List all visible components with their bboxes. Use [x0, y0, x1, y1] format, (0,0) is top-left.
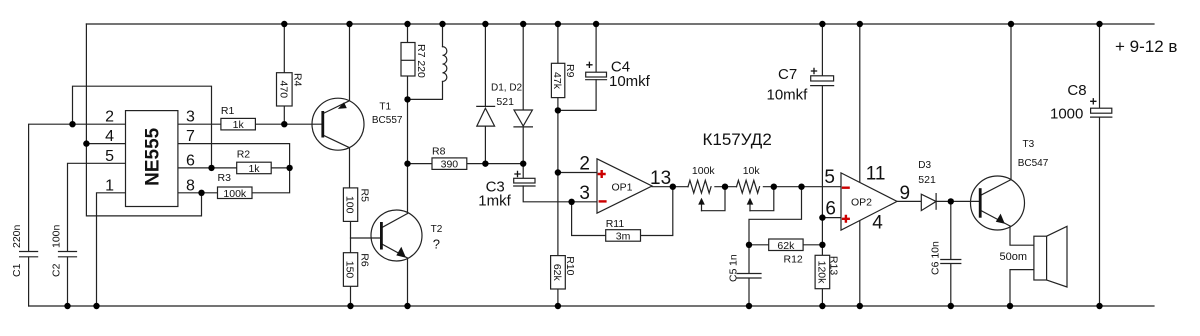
svg-text:6: 6	[825, 199, 836, 220]
svg-text:BC547: BC547	[1018, 158, 1049, 169]
svg-text:4: 4	[105, 128, 114, 145]
svg-text:C6 10n: C6 10n	[930, 241, 942, 275]
svg-text:10mkf: 10mkf	[609, 73, 651, 90]
svg-text:120k: 120k	[815, 261, 827, 285]
svg-text:521: 521	[496, 96, 514, 108]
svg-text:T1: T1	[379, 102, 391, 113]
svg-text:11: 11	[866, 164, 886, 185]
svg-text:5: 5	[105, 148, 114, 165]
svg-text:470: 470	[277, 81, 289, 99]
svg-text:1n: 1n	[728, 254, 740, 266]
svg-text:R9: R9	[564, 64, 576, 78]
svg-text:3: 3	[579, 183, 590, 204]
svg-text:R3: R3	[218, 172, 232, 184]
svg-text:NE555: NE555	[142, 127, 163, 186]
svg-text:R4: R4	[292, 73, 304, 87]
svg-text:T3: T3	[1023, 139, 1035, 150]
svg-text:2: 2	[579, 154, 590, 175]
svg-text:R2: R2	[237, 149, 251, 161]
svg-text:8: 8	[186, 177, 195, 194]
svg-text:К157УД2: К157УД2	[703, 130, 772, 149]
svg-text:62k: 62k	[551, 264, 563, 282]
svg-text:C5: C5	[728, 268, 740, 282]
svg-text:150: 150	[344, 261, 356, 279]
svg-text:BC557: BC557	[372, 115, 403, 126]
svg-text:13: 13	[650, 168, 671, 189]
svg-text:390: 390	[441, 159, 459, 171]
svg-text:R5: R5	[359, 189, 371, 203]
svg-text:C1: C1	[11, 263, 23, 277]
svg-text:100n: 100n	[51, 224, 63, 248]
svg-text:C2: C2	[51, 263, 63, 277]
svg-text:R10: R10	[564, 256, 576, 275]
svg-text:R6: R6	[359, 253, 371, 267]
svg-text:1mkf: 1mkf	[478, 192, 511, 209]
svg-text:100k: 100k	[692, 165, 716, 177]
svg-text:1k: 1k	[248, 163, 260, 175]
svg-text:62k: 62k	[777, 240, 795, 252]
svg-text:+ 9-12 в: + 9-12 в	[1115, 37, 1177, 56]
svg-text:D3: D3	[918, 160, 931, 171]
svg-text:100k: 100k	[223, 188, 247, 200]
svg-text:R8: R8	[432, 146, 446, 158]
svg-text:D1, D2: D1, D2	[491, 83, 523, 94]
svg-text:C8: C8	[1067, 82, 1086, 99]
svg-text:R13: R13	[828, 256, 840, 275]
svg-text:50om: 50om	[1000, 251, 1028, 263]
svg-text:1000: 1000	[1050, 106, 1083, 123]
svg-text:3m: 3m	[616, 231, 631, 243]
svg-text:10k: 10k	[743, 165, 761, 177]
svg-text:OP1: OP1	[612, 182, 633, 194]
svg-text:OP2: OP2	[851, 197, 872, 209]
svg-text:R7 220: R7 220	[415, 44, 427, 78]
svg-text:1k: 1k	[233, 119, 245, 131]
svg-text:10mkf: 10mkf	[767, 87, 809, 104]
svg-text:4: 4	[872, 213, 883, 234]
svg-text:R12: R12	[784, 254, 803, 266]
svg-text:C7: C7	[778, 66, 797, 83]
svg-text:T2: T2	[431, 224, 443, 235]
svg-text:?: ?	[433, 237, 440, 252]
svg-text:521: 521	[918, 174, 936, 186]
svg-text:47k: 47k	[551, 72, 563, 90]
svg-text:100: 100	[344, 196, 356, 214]
svg-text:1: 1	[105, 177, 114, 194]
svg-text:R1: R1	[221, 105, 235, 117]
svg-text:5: 5	[824, 167, 835, 188]
svg-text:6: 6	[186, 152, 195, 169]
svg-text:2: 2	[105, 109, 114, 126]
svg-text:9: 9	[900, 183, 911, 204]
svg-text:3: 3	[186, 109, 195, 126]
svg-text:R11: R11	[606, 218, 625, 230]
svg-text:7: 7	[186, 128, 195, 145]
svg-text:220n: 220n	[11, 224, 23, 248]
